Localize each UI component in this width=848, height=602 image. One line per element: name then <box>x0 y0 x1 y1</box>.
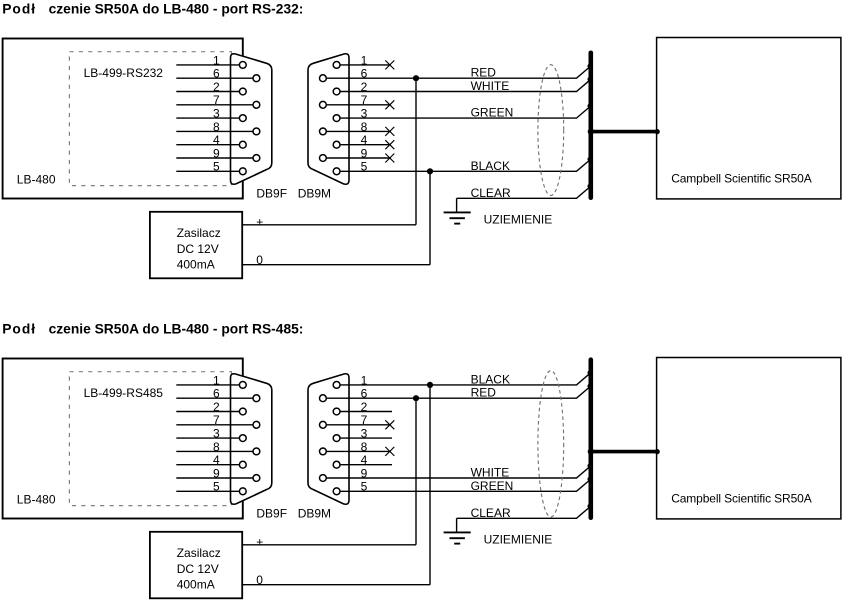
svg-text:5: 5 <box>213 160 220 174</box>
svg-text:+: + <box>256 215 263 229</box>
svg-text:RED: RED <box>471 66 497 80</box>
svg-text:BLACK: BLACK <box>471 159 510 173</box>
svg-text:DB9M: DB9M <box>298 187 331 201</box>
svg-text:1: 1 <box>361 373 368 387</box>
svg-text:5: 5 <box>213 480 220 494</box>
svg-text:6: 6 <box>361 387 368 401</box>
svg-text:Zasilacz: Zasilacz <box>177 226 221 240</box>
svg-text:3: 3 <box>361 107 368 121</box>
svg-text:7: 7 <box>213 413 220 427</box>
svg-text:9: 9 <box>213 146 220 160</box>
svg-text:WHITE: WHITE <box>471 466 510 480</box>
svg-text:GREEN: GREEN <box>471 479 514 493</box>
svg-text:0: 0 <box>256 253 263 267</box>
svg-text:5: 5 <box>361 480 368 494</box>
svg-text:DC 12V: DC 12V <box>177 562 219 576</box>
svg-text:4: 4 <box>361 133 368 147</box>
svg-text:7: 7 <box>213 93 220 107</box>
svg-text:RED: RED <box>471 386 497 400</box>
svg-text:1: 1 <box>361 53 368 67</box>
svg-text:WHITE: WHITE <box>471 79 510 93</box>
svg-text:3: 3 <box>213 107 220 121</box>
svg-text:6: 6 <box>361 67 368 81</box>
svg-text:4: 4 <box>213 453 220 467</box>
svg-text:DB9M: DB9M <box>298 507 331 521</box>
svg-text:4: 4 <box>213 133 220 147</box>
svg-text:CLEAR: CLEAR <box>471 186 511 200</box>
svg-text:Zasilacz: Zasilacz <box>177 546 221 560</box>
svg-text:6: 6 <box>213 67 220 81</box>
svg-text:3: 3 <box>361 427 368 441</box>
svg-text:9: 9 <box>213 466 220 480</box>
svg-text:DB9F: DB9F <box>256 187 287 201</box>
svg-text:2: 2 <box>213 400 220 414</box>
svg-text:0: 0 <box>256 573 263 587</box>
svg-text:CLEAR: CLEAR <box>471 506 511 520</box>
svg-text:4: 4 <box>361 453 368 467</box>
svg-text:7: 7 <box>361 413 368 427</box>
svg-text:9: 9 <box>361 146 368 160</box>
svg-text:8: 8 <box>361 440 368 454</box>
svg-text:DB9F: DB9F <box>256 507 287 521</box>
svg-text:UZIEMIENIE: UZIEMIENIE <box>484 212 553 226</box>
svg-text:LB-480: LB-480 <box>17 493 56 507</box>
svg-text:GREEN: GREEN <box>471 106 514 120</box>
svg-text:LB-499-RS232: LB-499-RS232 <box>84 66 164 80</box>
svg-text:5: 5 <box>361 160 368 174</box>
svg-text:7: 7 <box>361 93 368 107</box>
svg-text:LB-499-RS485: LB-499-RS485 <box>84 386 164 400</box>
svg-text:2: 2 <box>213 80 220 94</box>
svg-text:1: 1 <box>213 53 220 67</box>
svg-text:Campbell Scientific SR50A: Campbell Scientific SR50A <box>671 492 812 506</box>
svg-text:LB-480: LB-480 <box>17 173 56 187</box>
svg-text:400mA: 400mA <box>177 578 215 592</box>
svg-text:8: 8 <box>213 440 220 454</box>
svg-text:2: 2 <box>361 80 368 94</box>
svg-text:DC 12V: DC 12V <box>177 242 219 256</box>
svg-text:BLACK: BLACK <box>471 372 510 386</box>
svg-text:8: 8 <box>213 120 220 134</box>
svg-text:8: 8 <box>361 120 368 134</box>
svg-text:UZIEMIENIE: UZIEMIENIE <box>484 532 553 546</box>
svg-text:400mA: 400mA <box>177 258 215 272</box>
svg-text:9: 9 <box>361 466 368 480</box>
svg-text:1: 1 <box>213 373 220 387</box>
svg-text:3: 3 <box>213 427 220 441</box>
svg-text:2: 2 <box>361 400 368 414</box>
svg-text:6: 6 <box>213 387 220 401</box>
svg-text:Campbell Scientific SR50A: Campbell Scientific SR50A <box>671 172 812 186</box>
svg-text:+: + <box>256 535 263 549</box>
